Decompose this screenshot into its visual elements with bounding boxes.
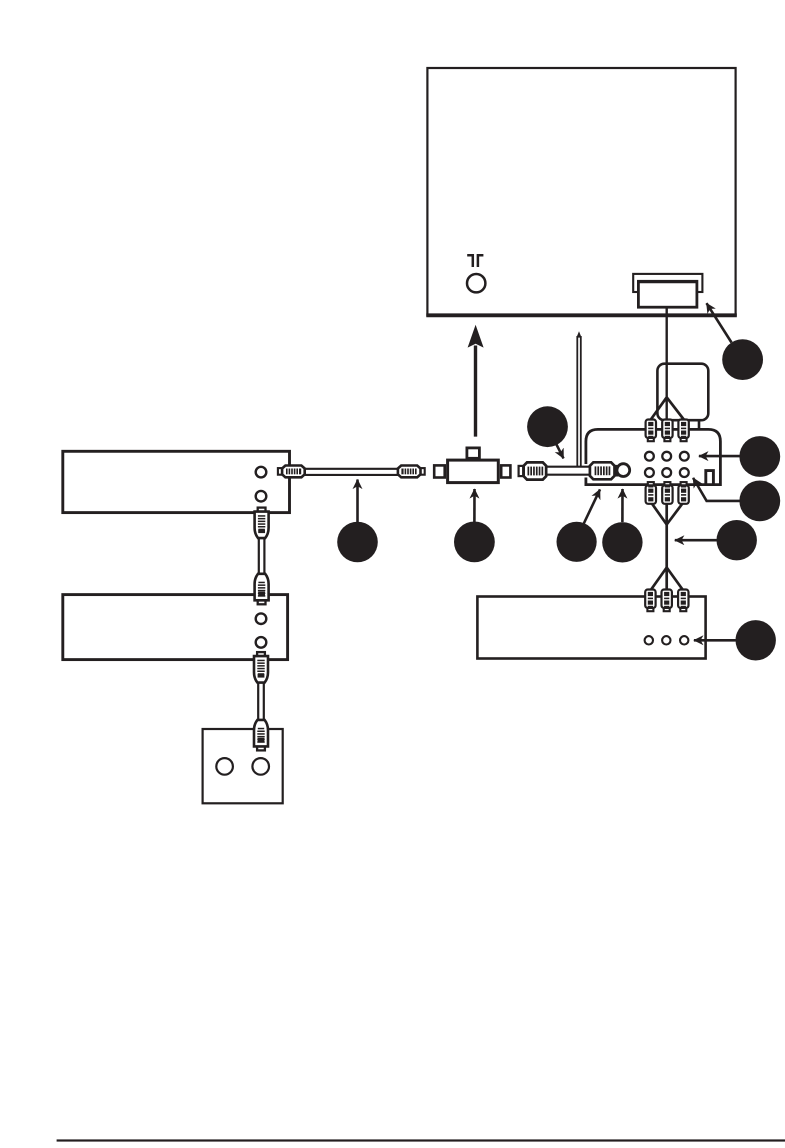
audio device jack 2 xyxy=(662,636,670,644)
plug audio device 3 xyxy=(678,590,688,612)
callout bullet 3 xyxy=(337,522,378,563)
audio device jack 1 xyxy=(645,636,653,644)
horizontal cable 1 lines xyxy=(300,468,400,470)
plug below module 2 xyxy=(662,482,672,504)
vertical cable B upper connector xyxy=(254,652,268,683)
wire TV terminal to splitter xyxy=(666,307,668,419)
lower splitter diverge wires xyxy=(650,568,666,591)
VCR jack circle 2 xyxy=(256,491,267,502)
plug below module 3 xyxy=(678,482,688,504)
TV bottom edge (thick) xyxy=(426,313,737,317)
wire module to lower splitter xyxy=(665,502,668,568)
plug top row 1 xyxy=(646,420,656,442)
module jack circle r1c2 xyxy=(662,452,671,461)
cable 1 left connector xyxy=(278,466,305,478)
plug audio device 1 xyxy=(645,590,655,612)
callout 10 arrow xyxy=(694,639,736,642)
upper dongle rounded box xyxy=(657,364,708,421)
plug audio device 2 xyxy=(662,590,672,612)
antenna wire left line xyxy=(576,336,578,467)
horizontal cable 2 lines xyxy=(542,466,592,468)
audio device box xyxy=(477,597,705,659)
TV antenna terminal inner plug xyxy=(638,281,697,307)
vertical cable B lines xyxy=(257,682,259,723)
lower splitter wires from module xyxy=(651,502,667,525)
module jack circle r2c3 xyxy=(680,468,689,477)
callout 8 leader xyxy=(693,478,740,501)
callout bullet 1 xyxy=(722,339,763,380)
plug below module 1 xyxy=(646,482,656,504)
vertical cable A upper connector xyxy=(255,508,269,538)
callout 5 arrow xyxy=(584,489,600,523)
callout bullet 2 xyxy=(527,406,568,447)
console jack circle 1 xyxy=(216,758,233,775)
antenna wire right line xyxy=(580,336,582,467)
splitter wire left xyxy=(651,397,667,419)
callout bullet 4 xyxy=(454,522,495,563)
VCR jack circle 1 xyxy=(256,467,267,478)
vertical cable A lower connector xyxy=(255,574,269,605)
DVD jack circle 1 xyxy=(256,613,267,624)
callout bullet 5 xyxy=(557,522,597,562)
splitter wire right xyxy=(667,397,684,419)
callout bullet 7 xyxy=(739,436,780,477)
TV set box xyxy=(427,68,735,315)
callout 7 arrow xyxy=(699,455,740,458)
T adapter body xyxy=(448,460,499,483)
footer rule xyxy=(57,1139,785,1141)
cable 1 right connector xyxy=(398,466,425,478)
callout 6 arrow xyxy=(621,489,624,522)
callout bullet 10 xyxy=(736,620,776,660)
horizontal cable 2 knockout xyxy=(582,464,592,478)
cable 2 right connector neck xyxy=(616,466,618,475)
audio device jack 3 xyxy=(680,636,688,644)
dongle neck line xyxy=(698,419,701,431)
cable 2 right connector body xyxy=(590,462,615,479)
plug top row 3 xyxy=(678,420,688,442)
VCR box xyxy=(63,451,290,512)
callout bullet 6 xyxy=(602,522,642,562)
module switch notch xyxy=(706,471,714,484)
DVD jack circle 2 xyxy=(256,637,267,648)
callout 3 arrow xyxy=(356,480,359,524)
callout 9 arrow xyxy=(675,539,717,542)
cable 2 round plug tip xyxy=(617,464,630,477)
big arrow to TV shaft xyxy=(474,346,477,437)
big arrow head xyxy=(468,325,484,348)
T adapter left tab xyxy=(434,465,445,477)
TV antenna terminal outer plate xyxy=(633,274,702,292)
callout bullet 8 xyxy=(739,481,780,522)
TV front symbol glyph xyxy=(467,255,473,267)
plug top row 2 xyxy=(662,420,672,442)
vertical cable A lines xyxy=(258,537,260,575)
callout bullet 9 xyxy=(717,520,757,560)
callout 1 arrow xyxy=(707,303,732,342)
module jack circle r2c1 xyxy=(645,468,654,477)
callout 4 arrow xyxy=(473,489,476,522)
T adapter right tab xyxy=(501,465,510,477)
antenna wire tip xyxy=(576,331,581,337)
TV front button circle xyxy=(467,274,485,292)
receiver module box xyxy=(586,429,721,484)
console jack circle 2 xyxy=(252,758,269,775)
vertical cable B lower connector xyxy=(254,720,268,751)
game console box xyxy=(203,729,283,803)
callout 2 arrow xyxy=(556,444,563,459)
module jack circle r1c3 xyxy=(680,452,689,461)
T adapter top bump xyxy=(467,448,480,458)
DVD box xyxy=(63,595,288,660)
module jack circle r2c2 xyxy=(662,468,671,477)
cable 2 left connector xyxy=(519,462,547,479)
module jack circle r1c1 xyxy=(645,452,654,461)
